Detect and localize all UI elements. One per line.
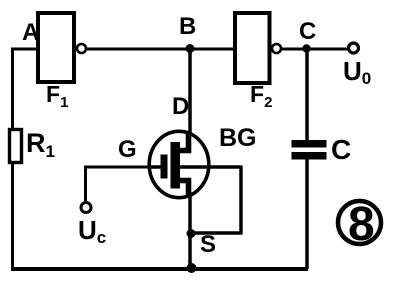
svg-text:S: S [200,231,216,258]
wire loop down right side [239,166,243,234]
svg-text:A: A [22,19,39,46]
drain step [174,133,189,151]
substrate lead to right [180,165,241,169]
capacitor C bottom plate [292,152,327,160]
wire F1 output to F2 input [86,48,235,51]
gate lead inside circle [150,165,162,169]
capacitor C top plate [292,140,327,148]
svg-text:D: D [172,93,189,120]
bottom wire [11,267,308,271]
wire A to F1 [11,48,38,51]
svg-text:U0: U0 [343,56,371,88]
bottom junction dot [187,263,197,273]
Uc terminal circle [81,203,91,213]
svg-text:G: G [118,136,137,163]
svg-text:C: C [299,18,316,45]
U0 output terminal [349,43,359,53]
figure number circle 8 [338,201,381,244]
svg-text:B: B [179,13,196,40]
inverter F1 [38,13,74,82]
wire R1 to bottom [11,162,14,269]
source step [174,181,189,198]
svg-text:Uc: Uc [78,215,106,247]
svg-text:8: 8 [348,198,375,251]
gate wire down to Uc terminal [84,166,87,203]
channel bar [171,142,181,189]
F1 output bubble [77,44,86,53]
node B junction dot [186,44,195,53]
svg-text:BG: BG [219,124,257,152]
gate bar [161,155,168,179]
svg-text:F2: F2 [250,81,272,111]
F2 output bubble [272,44,281,53]
inverter F2 [235,13,270,83]
wire source down to bottom [188,192,192,269]
svg-text:R1: R1 [26,128,55,161]
gate wire [86,166,153,169]
svg-text:C: C [331,134,351,165]
svg-text:F1: F1 [46,81,68,111]
node S junction dot [187,229,196,238]
wire C node down to capacitor [305,49,309,142]
transistor BG circle [149,131,209,197]
resistor R1 [10,130,22,163]
wire B down to transistor drain [188,49,192,152]
wire loop bottom to S node [191,231,243,235]
wire F2 output to U0 terminal [281,48,348,51]
node C junction dot [302,44,310,52]
wire capacitor to bottom [305,157,309,269]
wire A down to R1 [11,48,14,130]
